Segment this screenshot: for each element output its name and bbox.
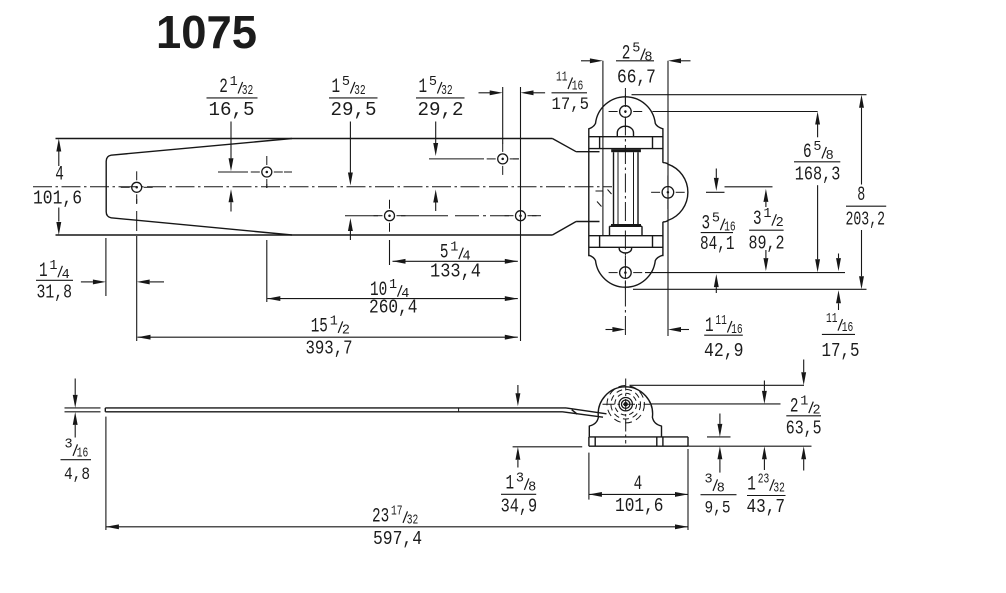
plate bottom extension right — [688, 445, 812, 447]
butt hole bottom — [620, 267, 632, 279]
svg-text:5: 5 — [429, 75, 437, 90]
svg-text:15: 15 — [311, 315, 328, 338]
svg-text:31,8: 31,8 — [37, 282, 73, 304]
svg-text:203,2: 203,2 — [846, 208, 886, 230]
pivot rings — [624, 402, 628, 406]
strap hole A — [132, 182, 142, 192]
pin bolt head (top) — [617, 126, 633, 137]
svg-text:2: 2 — [622, 43, 631, 66]
strap outline (plan view) — [106, 155, 111, 218]
svg-text:8: 8 — [644, 51, 652, 66]
svg-text:16: 16 — [572, 80, 584, 95]
dim 15 1/2 393,7 — [138, 336, 518, 338]
svg-text:5: 5 — [712, 212, 720, 227]
svg-text:3: 3 — [753, 208, 762, 231]
svg-text:2: 2 — [790, 396, 799, 419]
svg-text:16: 16 — [77, 446, 89, 461]
svg-text:29,5: 29,5 — [331, 99, 377, 121]
svg-text:5: 5 — [342, 75, 350, 90]
hole B centerline — [218, 171, 248, 173]
svg-text:23: 23 — [758, 472, 770, 487]
barrel tube — [613, 152, 615, 224]
svg-text:1: 1 — [763, 207, 771, 222]
svg-text:16: 16 — [842, 321, 854, 336]
hole C centerline — [429, 158, 484, 160]
svg-text:32: 32 — [441, 84, 453, 99]
dim 5 1/4 133,4 — [393, 260, 518, 262]
bracket base plate — [589, 436, 688, 438]
svg-text:1075: 1075 — [156, 6, 257, 58]
boss hole vertical extension — [667, 61, 669, 336]
svg-text:168,3: 168,3 — [795, 164, 841, 186]
dim 3 5/16 84,1 — [701, 232, 733, 234]
svg-text:32: 32 — [773, 481, 785, 496]
break mark at leaf — [596, 190, 612, 207]
svg-text:8: 8 — [528, 480, 536, 495]
svg-text:23: 23 — [372, 505, 389, 528]
svg-text:17,5: 17,5 — [552, 95, 590, 115]
hole A vertical extension — [136, 199, 138, 204]
butt hole top extension line — [653, 111, 818, 113]
dim 8 203,2 — [846, 205, 886, 207]
svg-text:260,4: 260,4 — [369, 297, 418, 319]
svg-text:16: 16 — [731, 323, 743, 338]
butt hole top — [620, 106, 632, 118]
dim 23 17/32 597,4 — [105, 417, 107, 530]
bottom flange ledge — [589, 235, 663, 237]
strap bottom edge / extension line — [56, 234, 553, 236]
svg-text:2: 2 — [342, 323, 350, 338]
svg-text:1: 1 — [450, 241, 458, 256]
svg-text:84,1: 84,1 — [700, 233, 735, 255]
dim 1 11/16 42,9 — [704, 334, 743, 336]
svg-text:4: 4 — [55, 163, 64, 186]
svg-text:1: 1 — [39, 260, 48, 283]
projection line left of lobes — [602, 61, 604, 236]
svg-text:32: 32 — [242, 84, 254, 99]
svg-text:11: 11 — [556, 71, 568, 86]
svg-text:32: 32 — [354, 84, 366, 99]
pivot center extension line — [650, 403, 781, 405]
svg-text:1: 1 — [506, 472, 515, 495]
svg-text:393,7: 393,7 — [306, 338, 353, 360]
svg-text:34,9: 34,9 — [501, 495, 537, 517]
bottom washer — [611, 224, 641, 226]
butt right edge upper — [662, 128, 664, 163]
bracket dome outline — [589, 387, 661, 437]
butt right edge lower — [662, 222, 664, 256]
svg-text:1: 1 — [705, 315, 714, 338]
svg-text:133,4: 133,4 — [430, 261, 481, 283]
svg-text:63,5: 63,5 — [786, 417, 822, 439]
svg-text:5: 5 — [632, 42, 640, 57]
hole D vertical extension — [389, 227, 391, 231]
svg-text:8: 8 — [857, 184, 865, 207]
svg-text:1: 1 — [230, 75, 238, 90]
top crest extension line — [632, 94, 867, 96]
hole B vertical extension — [266, 184, 268, 188]
svg-text:1: 1 — [49, 259, 57, 274]
butt plate left edge — [588, 128, 590, 256]
svg-text:1: 1 — [332, 76, 341, 99]
svg-text:16,5: 16,5 — [209, 99, 255, 121]
hole E vertical extension — [520, 87, 522, 341]
butt top lobe — [589, 97, 663, 129]
svg-text:1: 1 — [747, 473, 756, 496]
svg-text:1: 1 — [330, 314, 338, 329]
svg-text:11: 11 — [826, 312, 838, 327]
dim 3 1/2 89,2 — [749, 229, 784, 231]
svg-text:17,5: 17,5 — [822, 340, 860, 362]
strap side view — [105, 407, 566, 409]
lower holes centerline — [345, 215, 378, 217]
pivot crosshair — [625, 379, 627, 444]
strap hole E — [516, 211, 526, 221]
main strap centerline — [33, 186, 612, 188]
dim 11/16 17,5 (hole offset) — [552, 92, 588, 94]
svg-text:11: 11 — [715, 314, 727, 329]
pin tip (bottom) — [619, 247, 631, 253]
dim 11/16 17,5 (lobe) — [822, 333, 855, 335]
svg-text:1: 1 — [800, 395, 808, 410]
svg-text:1: 1 — [419, 76, 428, 99]
svg-text:3: 3 — [65, 437, 73, 452]
dim 1 5/32 29,5 — [329, 97, 378, 99]
strap tip extension — [105, 238, 107, 296]
svg-text:6: 6 — [803, 141, 812, 164]
svg-text:9,5: 9,5 — [705, 498, 731, 518]
pin axis centerline — [624, 88, 626, 336]
dome top extension line — [630, 384, 805, 386]
butt bottom lobe — [589, 255, 663, 287]
boss hole horizontal extension — [706, 191, 725, 193]
dim 1 23/32 43,7 — [747, 495, 786, 497]
strap hole D — [385, 211, 395, 221]
svg-text:597,4: 597,4 — [373, 528, 422, 550]
top washer (black band) — [611, 149, 641, 152]
dim 2 5/8 66,7 — [616, 60, 654, 62]
dim 21/32 16,5 — [207, 97, 258, 99]
dim 10 1/4 260,4 — [267, 298, 518, 300]
plate top short extension — [707, 436, 731, 438]
pivot boss arc — [663, 163, 688, 222]
butt hole bottom extension line — [645, 272, 845, 274]
svg-text:3: 3 — [516, 471, 524, 486]
bottom crest extension line — [633, 288, 867, 290]
svg-text:101,6: 101,6 — [615, 495, 664, 517]
dim 4 101,6 (plate) — [588, 453, 590, 500]
dim 6 5/8 168,3 — [794, 161, 840, 163]
dim 1 3/8 34,9 — [501, 493, 536, 495]
svg-text:101,6: 101,6 — [33, 188, 82, 210]
strap neck into butt — [552, 139, 576, 152]
svg-text:3: 3 — [705, 472, 713, 487]
dim 3/8 9,5 — [701, 494, 737, 496]
svg-text:8: 8 — [717, 481, 725, 496]
dim 1 5/32 29,2 — [416, 97, 465, 99]
hole C vertical extension — [502, 87, 504, 144]
hidden knuckle circles — [615, 393, 637, 415]
svg-text:42,9: 42,9 — [704, 340, 744, 362]
svg-text:89,2: 89,2 — [749, 233, 785, 255]
strap hole B — [262, 167, 272, 177]
strap thickness extension lines — [65, 407, 101, 409]
svg-text:32: 32 — [407, 513, 419, 528]
svg-text:8: 8 — [826, 149, 834, 164]
svg-text:5: 5 — [813, 140, 821, 155]
dim 1 1/4 31,8 — [36, 279, 73, 281]
svg-text:29,2: 29,2 — [418, 99, 464, 121]
plate bottom extension left — [513, 446, 583, 448]
top flange ledge — [589, 136, 663, 138]
strap centerline extension right — [725, 186, 773, 188]
dim 3/16 4,8 — [61, 459, 92, 461]
svg-text:4,8: 4,8 — [64, 465, 90, 485]
svg-text:43,7: 43,7 — [747, 496, 786, 518]
svg-text:1: 1 — [389, 278, 397, 293]
svg-text:2: 2 — [776, 216, 784, 231]
svg-text:2: 2 — [219, 76, 228, 99]
boss hole — [662, 187, 674, 199]
strap hole C — [498, 154, 508, 164]
svg-text:17: 17 — [391, 504, 403, 519]
strap top edge / extension line — [56, 138, 553, 140]
svg-text:66,7: 66,7 — [617, 66, 656, 88]
dim 2 1/2 63,5 — [786, 415, 821, 417]
svg-text:4: 4 — [634, 473, 643, 496]
svg-text:3: 3 — [702, 213, 711, 236]
